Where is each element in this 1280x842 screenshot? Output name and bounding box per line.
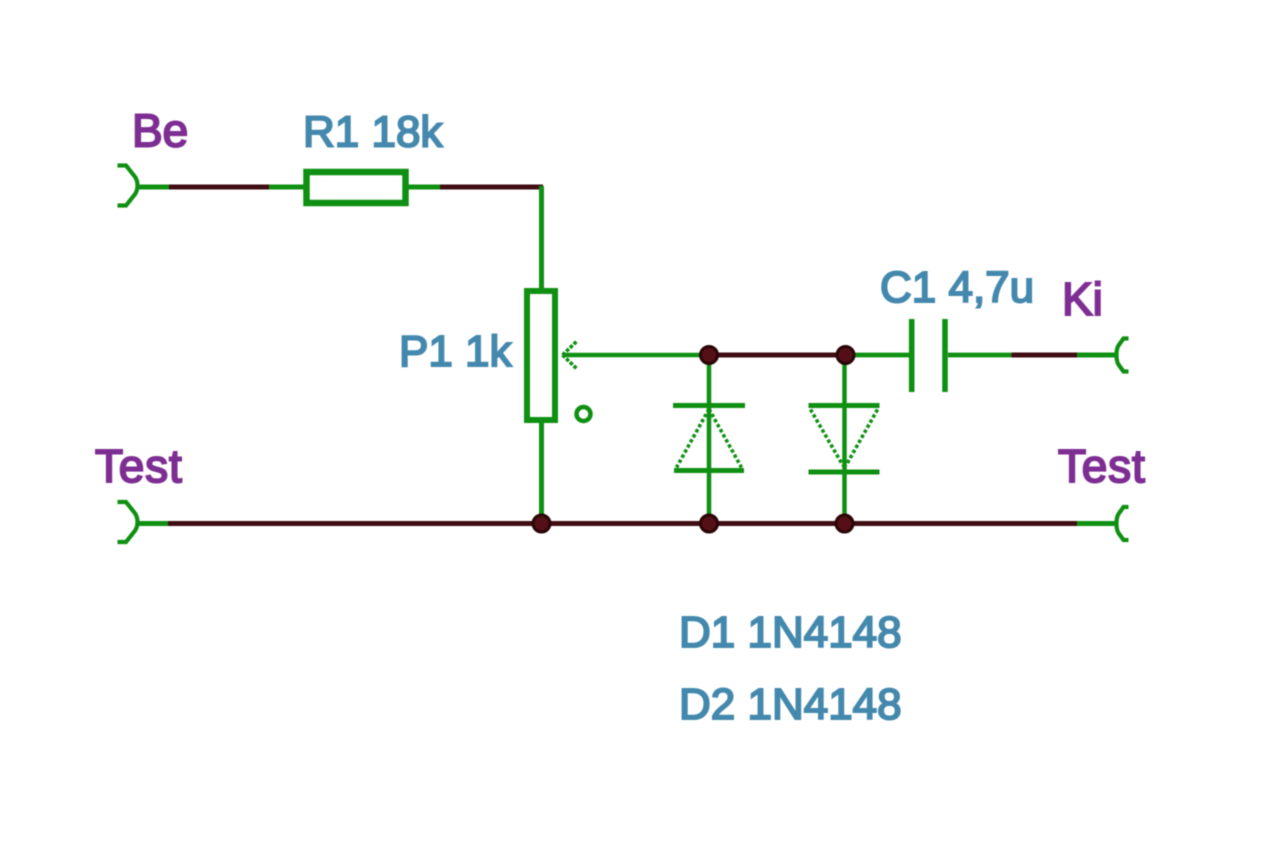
svg-text:P1 1k: P1 1k bbox=[399, 327, 513, 376]
svg-text:R1 18k: R1 18k bbox=[303, 108, 443, 157]
svg-text:C1 4,7u: C1 4,7u bbox=[880, 263, 1034, 312]
svg-text:Ki: Ki bbox=[1062, 273, 1103, 325]
svg-text:Test: Test bbox=[1058, 440, 1146, 492]
svg-text:D2 1N4148: D2 1N4148 bbox=[679, 680, 902, 729]
svg-text:D1 1N4148: D1 1N4148 bbox=[679, 608, 902, 657]
svg-text:Test: Test bbox=[95, 440, 183, 492]
svg-text:Be: Be bbox=[132, 105, 188, 157]
